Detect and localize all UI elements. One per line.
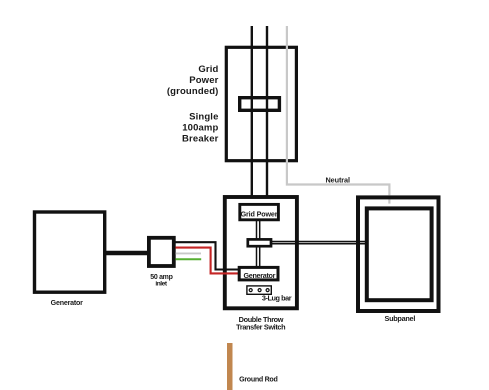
- wire: grid hot L2: [266, 26, 268, 208]
- transfer switch enclosure: [225, 197, 297, 308]
- wire: inlet hot black: [176, 242, 241, 269]
- svg-text:Generator: Generator: [243, 271, 275, 280]
- svg-text:(grounded): (grounded): [167, 86, 219, 97]
- label: Double Throw Transfer Switch: [236, 315, 285, 332]
- switch contact bar: [248, 239, 271, 246]
- svg-text:Grid: Grid: [198, 64, 218, 75]
- wire: neutral (gray): [287, 26, 390, 195]
- svg-text:inlet: inlet: [155, 281, 168, 288]
- wire: inlet hot red: [176, 248, 241, 274]
- svg-text:Subpanel: Subpanel: [384, 314, 415, 323]
- generator terminal box in transfer switch: [239, 267, 278, 280]
- generator box: [35, 212, 105, 292]
- svg-text:Breaker: Breaker: [182, 134, 219, 145]
- 3-lug bar box: [247, 286, 271, 294]
- svg-text:Neutral: Neutral: [325, 176, 350, 185]
- svg-text:Single: Single: [189, 112, 218, 123]
- wire: grid hot L1: [251, 26, 253, 208]
- svg-text:Power: Power: [189, 75, 218, 86]
- grid power terminal box in transfer switch: [240, 204, 279, 219]
- wire: inlet neutral stub (gray): [176, 252, 202, 254]
- wire pair: switch to subpanel: [271, 242, 367, 244]
- wire: generator cord (thick): [104, 251, 149, 255]
- subpanel outer box: [358, 197, 439, 311]
- wire pair: switch to generator terminal: [257, 247, 260, 267]
- svg-text:Transfer Switch: Transfer Switch: [236, 323, 285, 332]
- wire pair: grid power to switch: [257, 219, 260, 240]
- inlet box (50 amp inlet): [149, 238, 174, 266]
- lug 2: [258, 289, 261, 292]
- wire: inlet ground stub (green): [176, 258, 202, 260]
- svg-text:100amp: 100amp: [182, 123, 218, 134]
- subpanel inner box: [367, 208, 432, 300]
- ground rod: [227, 343, 233, 390]
- lug 3: [266, 289, 269, 292]
- label: Single 100amp Breaker: [182, 112, 219, 145]
- lug 1: [249, 289, 252, 292]
- breaker CB1 (100amp breaker): [240, 98, 280, 111]
- svg-text:Grid Power: Grid Power: [241, 209, 278, 218]
- wire: neutral tail into subpanel: [388, 200, 390, 204]
- label: Grid Power (grounded): [167, 64, 219, 97]
- svg-text:Generator: Generator: [51, 299, 84, 307]
- svg-text:Ground Rod: Ground Rod: [239, 375, 277, 383]
- svg-text:3-Lug bar: 3-Lug bar: [262, 293, 292, 302]
- breaker panel enclosure (grid power box): [226, 47, 296, 160]
- label: 50 amp inlet: [150, 274, 172, 288]
